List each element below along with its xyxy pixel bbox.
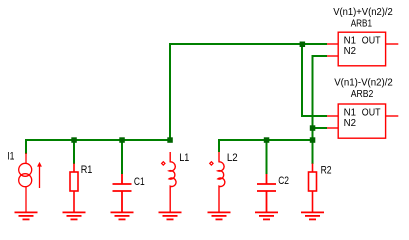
wire ARB1 N2 horizontal <box>312 55 328 57</box>
op block ARB2 <box>327 104 398 138</box>
ground R1 <box>63 212 86 219</box>
junction on top wire x302 <box>300 42 306 48</box>
svg-text:OUT: OUT <box>362 36 381 47</box>
ground L1 <box>159 212 182 219</box>
wire R2 stub <box>312 139 314 164</box>
wire I1 top drop <box>25 139 27 154</box>
svg-text:L2: L2 <box>227 152 238 164</box>
svg-text:R2: R2 <box>321 165 332 177</box>
svg-text:C2: C2 <box>278 175 289 187</box>
svg-text:OUT: OUT <box>362 108 381 119</box>
wire L2 stub <box>218 139 220 152</box>
L2 phase diamond <box>210 162 213 165</box>
wire vertical x312.5 <box>312 55 314 141</box>
current source I1 <box>19 153 40 212</box>
capacitor C1 <box>113 174 132 212</box>
ground C1 <box>111 212 134 219</box>
svg-text:C1: C1 <box>134 176 145 188</box>
wire ARB2 N2 horizontal <box>312 127 328 129</box>
ground C2 <box>255 212 278 219</box>
wire top horizontal to ARB1 N1 <box>169 43 327 45</box>
capacitor C2 <box>257 174 276 212</box>
svg-text:V(n1)+V(n2)/2: V(n1)+V(n2)/2 <box>333 7 393 18</box>
wire R1 stub <box>73 139 75 164</box>
svg-text:N2: N2 <box>344 46 357 57</box>
junction ARB2 N2 branch <box>310 125 316 131</box>
wire L1 vertical up <box>169 43 171 141</box>
op block ARB1 <box>327 32 398 66</box>
svg-text:N1: N1 <box>344 108 357 119</box>
wire bus1 left horizontal <box>25 139 171 141</box>
svg-text:I1: I1 <box>7 151 14 163</box>
inductor L1 <box>169 152 176 212</box>
svg-text:ARB2: ARB2 <box>351 89 374 100</box>
resistor R1 <box>70 164 78 213</box>
svg-text:N2: N2 <box>344 118 357 129</box>
junction at R1 top <box>71 137 77 143</box>
resistor R2 <box>309 164 317 213</box>
wire C2 stub <box>266 139 268 174</box>
I1 arrow head <box>37 162 42 167</box>
wire C1 stub <box>121 139 123 174</box>
svg-text:V(n1)-V(n2)/2: V(n1)-V(n2)/2 <box>334 78 393 89</box>
ground R2 <box>301 212 324 219</box>
svg-text:L1: L1 <box>179 152 189 164</box>
inductor L2 <box>218 152 225 212</box>
junction at C1 top <box>119 137 125 143</box>
junction at L1 top <box>167 137 173 143</box>
svg-text:N1: N1 <box>344 36 357 47</box>
junction at R2 top <box>310 137 316 143</box>
ground I1 <box>15 212 38 219</box>
junction at C2 top <box>264 137 270 143</box>
wire vertical x302 <box>301 43 303 117</box>
ground L2 <box>208 212 231 219</box>
wire bus2 right horizontal <box>218 139 314 141</box>
svg-text:ARB1: ARB1 <box>351 19 373 30</box>
L1 phase diamond <box>162 162 165 165</box>
wire ARB2 N1 horizontal <box>301 115 327 117</box>
svg-text:R1: R1 <box>81 164 93 176</box>
